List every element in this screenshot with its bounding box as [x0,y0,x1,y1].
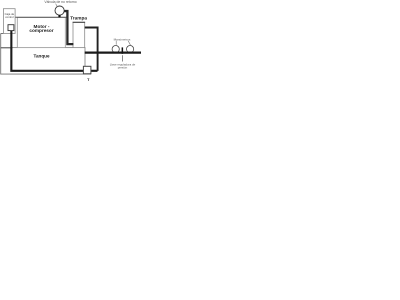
svg-text:Tanque: Tanque [34,53,50,58]
check valve tick [58,15,60,17]
control box (Caja de control) [3,9,15,34]
trampa box dark top edge [73,21,86,23]
pipe: check valve elbow down into trampa [64,11,74,44]
pointer: manometros to gauge 2 [128,41,130,45]
pointer: regulator label [121,55,123,61]
pipe: tank outlet line [85,51,141,53]
trampa box [73,22,85,47]
thin drain wire: left edge down and along bottom to T [1,34,91,75]
pointer: manometros to gauge 1 [115,41,117,45]
gauge circle 1 (manometro) [112,46,119,53]
svg-text:presión: presión [118,66,128,70]
regulator valve tick [122,47,124,53]
motor-compressor box [17,17,65,47]
pointer: label to valve [56,4,58,7]
check valve circle [55,6,64,15]
wire: left connector at caja bottom [1,33,4,35]
gauge circle 2 (manometro) [127,46,134,53]
thick control wire: switch down, along tank bottom, to riser [11,31,97,71]
svg-text:Válvula de no retorno: Válvula de no retorno [44,0,76,4]
tank (Tanque) body [11,48,85,72]
svg-text:compresor: compresor [29,28,53,33]
wire: control box to check valve / pipe [15,16,67,18]
pressure switch square [8,25,14,31]
wire: left connector at tank top [1,47,13,49]
svg-text:Manómetros: Manómetros [114,37,131,41]
drain square T [83,66,91,74]
pipe: trampa outlet to riser down to bottom wire [85,28,98,71]
svg-text:control: control [5,15,14,19]
svg-text:Trampa: Trampa [70,16,87,21]
